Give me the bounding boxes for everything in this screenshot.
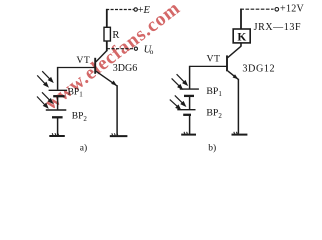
wire +12V horizontal dashed (240, 8, 273, 10)
svg-text:+12V: +12V (280, 3, 305, 14)
light arrows BP2 right (170, 95, 185, 109)
relay coil box K (233, 29, 250, 43)
ground right chain (181, 132, 196, 135)
emitter arrow VT1 (111, 81, 117, 86)
resistor R (104, 27, 110, 41)
svg-text:BP: BP (206, 86, 219, 97)
terminal +E circle (134, 8, 137, 11)
svg-text:o: o (150, 47, 154, 56)
transistor VT1 collector lead (96, 51, 107, 62)
transistor VT2 collector lead (228, 46, 241, 57)
ground left chain (49, 133, 65, 136)
svg-text:b): b) (208, 142, 216, 153)
wire emitter vertical left (116, 85, 118, 135)
wire BP1 to BP2 left (57, 96, 59, 110)
wire +E horizontal dashed (106, 9, 134, 11)
wire left main vertical (106, 9, 108, 28)
light arrows BP1 right (172, 74, 187, 89)
wire BP2 to ground left (57, 118, 59, 136)
wire BP1 to BP2 right (189, 96, 191, 110)
svg-text:BP: BP (68, 87, 80, 97)
wire base to photocells right (190, 65, 227, 67)
wire right main vertical (240, 9, 242, 30)
svg-text:+E: +E (138, 5, 151, 16)
wire photocell chain top (57, 67, 59, 90)
wire photocell chain top right (189, 66, 191, 89)
svg-text:3DG12: 3DG12 (242, 64, 275, 75)
transistor VT1 base bar (94, 58, 96, 74)
photocell BP1 left bars (49, 89, 68, 91)
photocell BP2 left bars (46, 109, 67, 111)
svg-text:3DG6: 3DG6 (113, 63, 137, 74)
wire resistor to collector node (106, 41, 108, 51)
terminal Uo circle (134, 47, 137, 50)
transistor VT2 base bar (226, 55, 228, 71)
transistor VT2 emitter lead (228, 71, 238, 79)
transistor VT1 emitter lead (96, 71, 117, 86)
wire base to photocells (58, 67, 95, 69)
svg-text:BP: BP (206, 107, 219, 118)
terminal +12V circle (275, 8, 279, 12)
ground right emitter (232, 132, 248, 135)
svg-text:K: K (237, 32, 246, 44)
photocell BP2 right bars (177, 109, 195, 111)
light arrows BP2 left (37, 92, 52, 107)
svg-text:VT: VT (76, 55, 90, 66)
svg-text:a): a) (80, 142, 87, 153)
photocell BP1 right bars (180, 88, 199, 90)
wire emitter vertical right (237, 79, 239, 134)
svg-text:JRX—13F: JRX—13F (254, 22, 302, 33)
svg-text:2: 2 (218, 112, 222, 120)
svg-text:BP: BP (72, 112, 84, 122)
svg-text:VT: VT (207, 53, 221, 64)
light arrows BP1 left (37, 71, 52, 86)
ground left emitter (110, 133, 128, 136)
wire BP2 to ground right (189, 115, 191, 134)
svg-text:1: 1 (79, 91, 83, 99)
wire relay to collector (240, 43, 242, 47)
svg-text:1: 1 (218, 90, 222, 98)
emitter arrow VT2 (233, 74, 239, 79)
wire Uo tap dashed (107, 48, 134, 50)
svg-text:2: 2 (83, 115, 87, 123)
svg-text:R: R (112, 30, 119, 41)
